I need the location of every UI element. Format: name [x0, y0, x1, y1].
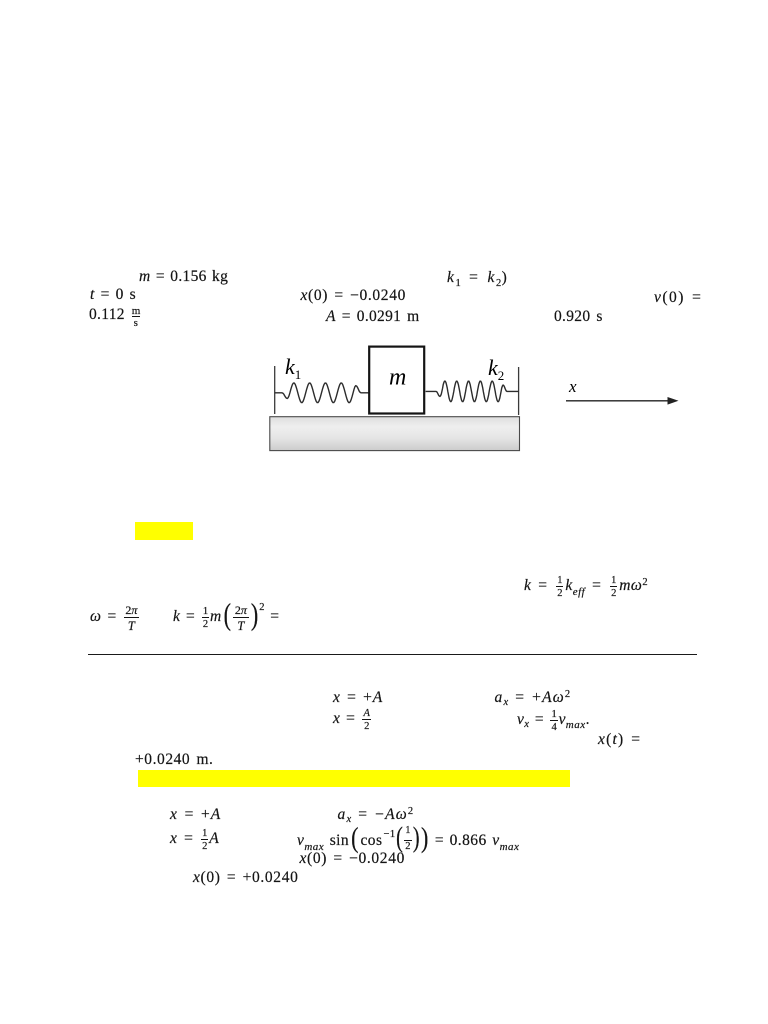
left wall: [274, 366, 276, 414]
svg-text:m: m: [389, 365, 406, 391]
x(0) = +0.0240: [193, 870, 299, 886]
spring-mass diagram: [255, 338, 695, 458]
k = 1/2 keff = 1/2 m w^2: [524, 578, 648, 594]
left spring: [275, 383, 369, 402]
yellow highlight 2: [138, 770, 570, 787]
x axis arrow: [566, 400, 671, 402]
yellow highlight 1: [135, 522, 193, 540]
x(0) = -0.0240: [300, 851, 406, 867]
base: [270, 417, 520, 451]
+0.0240 m.: [135, 752, 213, 768]
x(t) =: [598, 732, 641, 748]
x = 1/2 A: [170, 831, 219, 847]
svg-text:x: x: [568, 377, 577, 396]
omega = 2pi/T: [90, 609, 140, 625]
horizontal rule: [88, 654, 697, 656]
right wall: [518, 367, 520, 415]
k = 1/2 m (2pi/T)^2 =: [173, 609, 279, 625]
x = +A ; ax = -Aw^2: [170, 807, 221, 823]
svg-text:k2: k2: [488, 355, 504, 383]
top data lines: [139, 269, 228, 285]
mass box: [369, 347, 424, 414]
x = +A ; ax = +Aw^2: [333, 690, 383, 706]
x = A/2 ; vx = 1/4 vmax: [333, 711, 372, 727]
svg-text:k1: k1: [285, 354, 301, 382]
vmax sin(cos^-1(1/2)) = 0.866 vmax: [297, 833, 519, 849]
right spring: [426, 381, 519, 401]
